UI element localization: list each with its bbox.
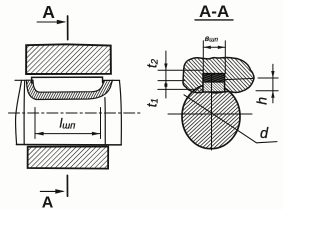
tenon section base	[203, 74, 225, 92]
svg-text:A: A	[42, 195, 54, 210]
lower beam left outer edge	[16, 80, 22, 144]
circle vertical centerline	[211, 74, 213, 150]
mortise opening outline	[32, 77, 103, 83]
svg-text:d: d	[260, 126, 269, 142]
lower beam right outer edge	[119, 81, 121, 145]
diameter leader d	[184, 95, 277, 143]
section arrow (bottom)	[40, 190, 63, 192]
upper beam section (hatched)	[26, 44, 111, 74]
svg-text:A-A: A-A	[199, 2, 229, 21]
seam extension line left-bottom (t1 lower)	[158, 88, 196, 90]
bottom pad section (hatched)	[28, 147, 109, 169]
dim v_shp extension lines	[203, 41, 225, 74]
seam extension line left-mid	[158, 80, 185, 82]
dim h vertical line	[272, 64, 274, 103]
mortise liner band (hatched U)	[27, 80, 113, 99]
circle horizontal centerline	[168, 113, 252, 115]
dimension l_shp line	[35, 133, 101, 135]
seam extension line left-top (t2 upper)	[158, 69, 203, 71]
svg-text:h: h	[254, 97, 270, 105]
svg-text:A: A	[42, 2, 55, 22]
lower beam left inner edge	[23, 80, 26, 144]
svg-text:lшп: lшп	[60, 116, 77, 131]
centerline	[9, 112, 142, 114]
lower beam right inner edge	[104, 98, 106, 145]
section stroke (top)	[67, 16, 69, 40]
tenon section top band (dark)	[203, 74, 225, 82]
dim t vertical line	[165, 51, 167, 98]
lower log section circle (hatched /)	[182, 84, 240, 148]
tenon section bottom band (dense hatch)	[203, 82, 225, 92]
tenon seam divider	[203, 81, 225, 83]
section stroke (bottom)	[66, 175, 68, 196]
svg-text:t2: t2	[144, 58, 160, 68]
upper log section blob (hatched \)	[183, 57, 254, 93]
dim h extension top	[258, 77, 278, 79]
dim v_shp line	[203, 46, 225, 48]
dim h extension bottom	[256, 90, 278, 92]
tenon outline	[203, 74, 225, 92]
svg-text:вшп: вшп	[205, 33, 219, 44]
section arrow (top)	[37, 21, 64, 23]
lower beam top surface right	[113, 79, 120, 81]
lower beam bottom line	[16, 144, 121, 146]
lower beam top surface left	[15, 79, 27, 81]
svg-text:t1: t1	[144, 98, 160, 107]
dimension l_shp extension lines	[35, 108, 101, 139]
seam line across right lobe	[225, 78, 254, 79]
